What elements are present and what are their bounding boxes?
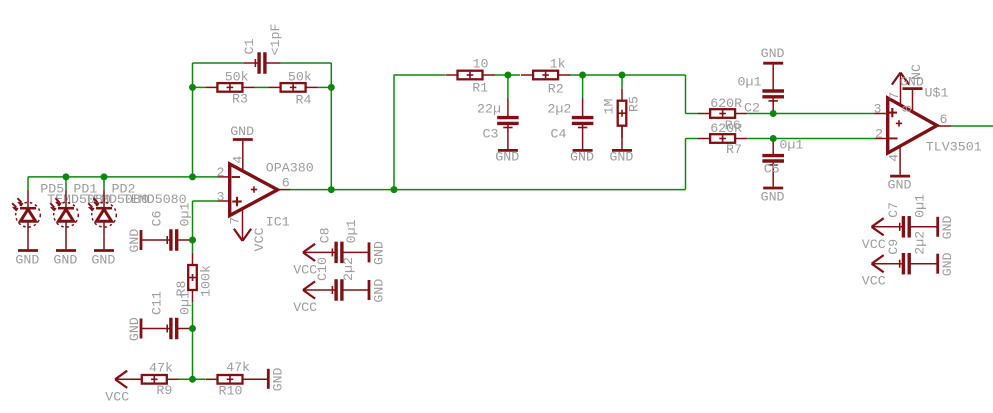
- capacitor C5 pin bottom: [772, 162, 774, 186]
- junction C6 node: [189, 237, 196, 244]
- capacitor C10 pins: [303, 289, 336, 291]
- svg-text:4: 4: [231, 156, 246, 164]
- svg-text:7: 7: [227, 217, 242, 225]
- capacitor C7 0µ1: [886, 194, 928, 238]
- capacitor C2 pin top: [772, 64, 774, 89]
- svg-text:1M: 1M: [601, 99, 616, 115]
- svg-text:C4: C4: [551, 127, 567, 142]
- wire R1 riser: [393, 75, 395, 190]
- resistor R6 620R: [698, 96, 747, 133]
- svg-text:22µ: 22µ: [477, 102, 501, 117]
- svg-text:6: 6: [940, 112, 948, 127]
- wire R1-R2 middle: [494, 74, 520, 76]
- junction C11 node: [189, 325, 196, 332]
- wire R3-R4 middle: [255, 86, 269, 88]
- wire output riser: [685, 139, 687, 190]
- svg-text:R7: R7: [726, 142, 742, 157]
- wire R5 stub: [621, 75, 623, 89]
- comparator U$1 TLV3501: [875, 74, 952, 175]
- junction R1-C3 node: [504, 72, 511, 79]
- svg-text:VCC: VCC: [252, 228, 267, 252]
- wire feedback right vertical: [330, 63, 332, 190]
- VCC at C9: [862, 255, 886, 289]
- svg-text:VCC: VCC: [862, 237, 886, 252]
- svg-text:GND: GND: [888, 178, 912, 193]
- svg-text:VCC: VCC: [293, 300, 317, 315]
- svg-text:0µ1: 0µ1: [779, 138, 803, 153]
- svg-text:1k: 1k: [550, 57, 566, 72]
- svg-text:R1: R1: [472, 81, 488, 96]
- ground at C10: [369, 279, 386, 303]
- svg-text:C6: C6: [149, 211, 164, 227]
- capacitor C3 pin top: [507, 98, 509, 116]
- resistor R5 1M: [601, 89, 641, 138]
- ground at U$1 pin 8: [900, 74, 924, 89]
- junction R5 top node: [619, 72, 626, 79]
- capacitor C5 pin top: [772, 139, 774, 155]
- svg-text:GND: GND: [15, 252, 39, 267]
- svg-text:C1: C1: [242, 39, 257, 55]
- junction PD1 top: [63, 173, 70, 180]
- resistor R3 50k: [205, 69, 254, 106]
- svg-text:<1pF: <1pF: [268, 24, 283, 56]
- svg-text:GND: GND: [371, 241, 386, 265]
- svg-text:2µ2: 2µ2: [547, 102, 571, 117]
- VCC at C10: [293, 281, 317, 315]
- wire comparator output: [951, 125, 993, 127]
- svg-text:GND: GND: [761, 46, 785, 61]
- svg-text:U$1: U$1: [925, 86, 949, 101]
- svg-text:VCC: VCC: [862, 274, 886, 289]
- svg-text:2: 2: [217, 165, 225, 180]
- junction inverting input node: [189, 173, 196, 180]
- resistor R9 47k: [130, 360, 179, 398]
- photodiode PD5 TEMD5080: [12, 182, 111, 250]
- ground under PD2: [91, 251, 115, 268]
- ground at C2: [761, 46, 785, 63]
- capacitor C4 2µ2: [547, 102, 593, 142]
- wire feedback left vertical: [192, 63, 194, 177]
- capacitor C4 pin bottom: [582, 125, 584, 149]
- svg-text:50k: 50k: [225, 69, 249, 84]
- wire feedback top right segment: [281, 62, 332, 64]
- svg-text:GND: GND: [940, 252, 955, 276]
- svg-text:0µ1: 0µ1: [344, 219, 359, 243]
- wire R7 to pin2: [747, 138, 874, 140]
- junction R9-R10 node: [189, 376, 196, 383]
- svg-text:2µ2: 2µ2: [341, 257, 356, 281]
- wire R9-R10 row: [179, 378, 205, 380]
- svg-text:R4: R4: [296, 93, 312, 108]
- capacitor C2 0µ1: [738, 75, 785, 116]
- resistor R10 47k: [205, 360, 254, 399]
- capacitor C3 pin bottom: [507, 125, 509, 149]
- svg-text:R2: R2: [548, 82, 564, 97]
- capacitor C11 pins: [141, 328, 171, 330]
- svg-text:C9: C9: [886, 239, 901, 255]
- photodiode PD1 TEMD5080: [50, 182, 149, 250]
- VCC at IC1 pin 7: [234, 228, 267, 252]
- ground at C8: [369, 241, 386, 265]
- svg-text:C7: C7: [886, 202, 901, 218]
- svg-text:0µ1: 0µ1: [177, 291, 192, 315]
- junction R7-C5 node: [770, 135, 777, 142]
- svg-text:GND: GND: [495, 150, 519, 165]
- junction R6-C2 node: [770, 110, 777, 117]
- svg-text:GND: GND: [127, 229, 142, 253]
- capacitor C6 0µ1: [149, 203, 192, 251]
- capacitor C8 pins: [303, 251, 336, 253]
- capacitor C9 pins: [872, 263, 904, 265]
- svg-text:47k: 47k: [149, 360, 173, 375]
- svg-text:2: 2: [875, 126, 883, 141]
- ground at C9: [938, 252, 955, 276]
- VCC at C7: [862, 218, 886, 252]
- wire pin3 vertical upper: [192, 201, 194, 253]
- svg-text:C5: C5: [764, 162, 780, 177]
- capacitor C1 pins: [243, 62, 259, 64]
- junction R2-C4 node: [579, 72, 586, 79]
- svg-text:3: 3: [217, 189, 225, 204]
- resistor R4 50k: [269, 69, 318, 107]
- wire opamp output: [291, 189, 686, 191]
- svg-text:3: 3: [874, 101, 882, 116]
- wire PD5 stub: [27, 177, 29, 190]
- wire PD2 stub: [103, 177, 105, 190]
- ground at C3: [495, 150, 519, 165]
- junction output-R1 node: [391, 186, 398, 193]
- R5 to ground wire: [621, 127, 623, 150]
- svg-text:7: 7: [887, 92, 902, 100]
- junction PD2 top: [101, 173, 108, 180]
- svg-text:GND: GND: [271, 367, 286, 391]
- svg-text:GND: GND: [127, 317, 142, 341]
- resistor R1 10: [445, 57, 494, 96]
- wire feedback top left segment: [193, 62, 244, 64]
- svg-text:C8: C8: [317, 227, 332, 243]
- svg-text:GND: GND: [53, 252, 77, 267]
- svg-text:50k: 50k: [288, 69, 312, 84]
- svg-text:C3: C3: [483, 127, 499, 142]
- svg-text:47k: 47k: [226, 360, 250, 375]
- wire PD1 stub: [65, 177, 67, 190]
- photodiode PD2 TEMD5080: [88, 182, 186, 250]
- svg-text:OPA380: OPA380: [266, 161, 314, 176]
- junction feedback-R3 left: [189, 84, 196, 91]
- wire photodiode bus: [28, 176, 218, 178]
- wire to R6: [686, 113, 699, 115]
- svg-text:GND: GND: [230, 124, 254, 139]
- svg-text:C10: C10: [315, 257, 330, 281]
- wire R2 net riser: [685, 75, 687, 114]
- capacitor C3 22µ: [477, 102, 519, 142]
- ground at R10: [268, 367, 285, 391]
- ground at C6: [127, 229, 142, 253]
- wire R6 to pin3: [747, 113, 874, 115]
- VCC at R9: [105, 371, 129, 405]
- R10 to ground wire: [243, 378, 267, 380]
- svg-text:R3: R3: [232, 92, 248, 107]
- svg-text:IC1: IC1: [266, 215, 290, 230]
- ground at C5: [761, 188, 785, 204]
- svg-text:NC: NC: [909, 64, 924, 80]
- capacitor C7 pins: [872, 226, 904, 228]
- wire output to R7: [686, 138, 699, 140]
- R9 supply wire: [115, 378, 141, 380]
- ground at U$1 pin 4: [888, 176, 912, 192]
- junction feedback-R4 right: [328, 84, 335, 91]
- wire R2 row right: [569, 74, 685, 76]
- svg-text:6: 6: [282, 176, 290, 191]
- svg-text:VCC: VCC: [293, 262, 317, 277]
- svg-text:R5: R5: [626, 96, 641, 112]
- resistor R2 1k: [521, 57, 570, 97]
- ground under PD1: [53, 251, 77, 268]
- op-amp IC1 OPA380: [218, 141, 291, 241]
- svg-text:C2: C2: [744, 101, 760, 116]
- capacitor C1 <1pF: [242, 24, 283, 74]
- capacitor C5 0µ1: [762, 138, 803, 177]
- svg-text:GND: GND: [761, 189, 785, 204]
- resistor R8 100k: [174, 253, 214, 302]
- ground at C7: [938, 215, 955, 239]
- ground at R5: [609, 150, 633, 165]
- capacitor C6 pins: [141, 239, 171, 241]
- wire C4 stub: [582, 75, 584, 98]
- svg-text:10: 10: [473, 57, 489, 72]
- capacitor C4 pin top: [582, 98, 584, 116]
- junction output-feedback node: [328, 186, 335, 193]
- svg-text:TLV3501: TLV3501: [926, 140, 982, 155]
- capacitor C2 pin bottom: [772, 98, 774, 113]
- ground at IC1 pin 4: [230, 124, 254, 140]
- svg-text:R9: R9: [156, 383, 172, 398]
- svg-text:GND: GND: [570, 150, 594, 165]
- wire R1 row left: [394, 74, 445, 76]
- VCC at C8: [293, 244, 317, 278]
- svg-text:0µ1: 0µ1: [738, 75, 762, 90]
- svg-text:620R: 620R: [710, 96, 742, 111]
- wire R4 row right: [318, 86, 332, 88]
- svg-text:GND: GND: [940, 215, 955, 239]
- svg-text:GND: GND: [609, 150, 633, 165]
- wire pin3 vertical lower: [192, 302, 194, 379]
- svg-text:620R: 620R: [710, 121, 742, 136]
- svg-text:GND: GND: [371, 279, 386, 303]
- ground under PD5: [15, 251, 39, 268]
- wire pin3 horizontal: [193, 200, 219, 202]
- capacitor C11 0µ1: [149, 291, 192, 339]
- svg-text:2µ2: 2µ2: [913, 231, 928, 255]
- wire C3 stub: [507, 75, 509, 98]
- svg-text:R10: R10: [219, 384, 243, 399]
- capacitor C10 2µ2: [315, 257, 356, 301]
- svg-text:8: 8: [900, 105, 915, 113]
- capacitor C8 0µ1: [317, 219, 359, 263]
- capacitor C9 2µ2: [886, 231, 928, 275]
- svg-text:VCC: VCC: [105, 389, 129, 404]
- resistor R7 620R: [698, 121, 747, 157]
- ground at C11: [127, 317, 142, 341]
- svg-text:0µ1: 0µ1: [177, 203, 192, 227]
- VCC at U$1 pin 7: [892, 73, 909, 85]
- svg-text:GND: GND: [91, 252, 115, 267]
- svg-text:C11: C11: [149, 291, 164, 315]
- svg-text:0µ1: 0µ1: [913, 194, 928, 218]
- ground at C4: [570, 150, 594, 165]
- svg-text:100k: 100k: [199, 265, 214, 297]
- wire R3 row left: [193, 86, 206, 88]
- svg-text:4: 4: [886, 154, 901, 162]
